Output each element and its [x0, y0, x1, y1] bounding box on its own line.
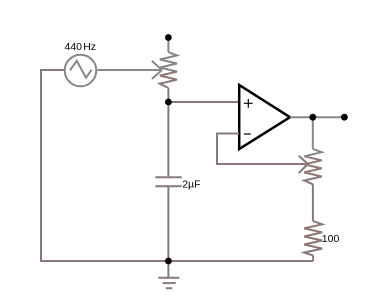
wire op-amp output to posts	[290, 116, 344, 118]
wire P1 bottom to node A	[167, 88, 169, 102]
wire output node down to potentiometer P2	[312, 117, 314, 149]
wire left+bottom net (source to ground loop)	[41, 70, 313, 261]
ground node junction dot	[165, 258, 172, 265]
node dot output junction	[309, 114, 316, 121]
potentiometer P2 upper part	[304, 149, 322, 158]
capacitor C1 2uF	[155, 177, 181, 186]
svg-text:440Hz: 440Hz	[65, 41, 97, 53]
wire node A down to capacitor C1	[167, 102, 169, 177]
wire source to top potentiometer wiper	[98, 69, 162, 71]
potentiometer P2 wiper arrow	[299, 156, 308, 174]
voltage source V1 440 Hz	[65, 55, 97, 87]
ground symbol	[158, 261, 179, 288]
wire potentiometer P2 to resistor R1	[312, 184, 314, 221]
wire resistor R1 to bottom net	[312, 255, 314, 261]
potentiometer P1 wiper arrow	[152, 61, 162, 79]
svg-text:2µF: 2µF	[182, 178, 200, 190]
wire node A to op-amp + input	[168, 101, 239, 103]
potentiometer P1 upper half	[160, 52, 177, 70]
node dot top terminal of potentiometer P1	[165, 34, 172, 41]
potentiometer P2 lower part	[304, 158, 322, 185]
node dot output post	[341, 114, 348, 121]
potentiometer P1 lower half	[160, 70, 177, 88]
svg-text:100: 100	[322, 233, 340, 245]
wire op-amp - input feedback to potentiometer P2 wiper	[217, 134, 308, 165]
node A junction dot	[165, 99, 172, 106]
resistor R1 100	[304, 221, 322, 255]
op-amp U1	[239, 85, 290, 149]
wire capacitor C1 to ground node	[167, 186, 169, 261]
wire top terminal to potentiometer P1	[167, 37, 169, 52]
